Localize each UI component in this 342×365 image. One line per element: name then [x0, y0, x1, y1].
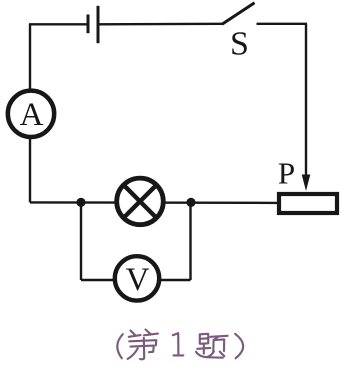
node: right junction dot [186, 198, 195, 207]
fullwidth open paren [117, 334, 123, 358]
wire: voltmeter branch bottom horizontal [81, 279, 191, 281]
wire: battery to switch [98, 23, 223, 26]
caption (第 1 题) in plum color [117, 330, 243, 360]
rheostat wiper arrowhead [302, 175, 311, 192]
svg-text:S: S [230, 26, 249, 63]
voltmeter V [115, 256, 159, 300]
battery cell: short plate (negative) [87, 15, 90, 34]
wire: voltmeter branch right vertical [189, 202, 191, 280]
wire: top-left horizontal from corner to battery [29, 23, 88, 25]
hanzi 第 [128, 330, 158, 360]
wire: bottom bus from left corner to rheostat [30, 201, 278, 204]
ammeter A [8, 91, 54, 137]
svg-text:A: A [20, 97, 44, 133]
switch S: right contact wire [257, 23, 308, 25]
node: left junction dot [76, 198, 85, 207]
digit 1 [173, 333, 184, 355]
hanzi 题 [196, 334, 228, 358]
svg-text:V: V [126, 262, 150, 298]
lamp L (circle with X) [117, 178, 164, 225]
wire: voltmeter branch left vertical [80, 202, 82, 280]
battery cell: long plate (positive) [97, 6, 100, 43]
rheostat P: resistor body [279, 194, 337, 213]
wire: left vertical (battery side down through ammeter) [29, 24, 31, 202]
svg-text:P: P [278, 156, 295, 191]
fullwidth close paren [235, 334, 243, 359]
switch S: blade [222, 3, 255, 24]
wire: right vertical down to rheostat arrow [305, 24, 307, 177]
